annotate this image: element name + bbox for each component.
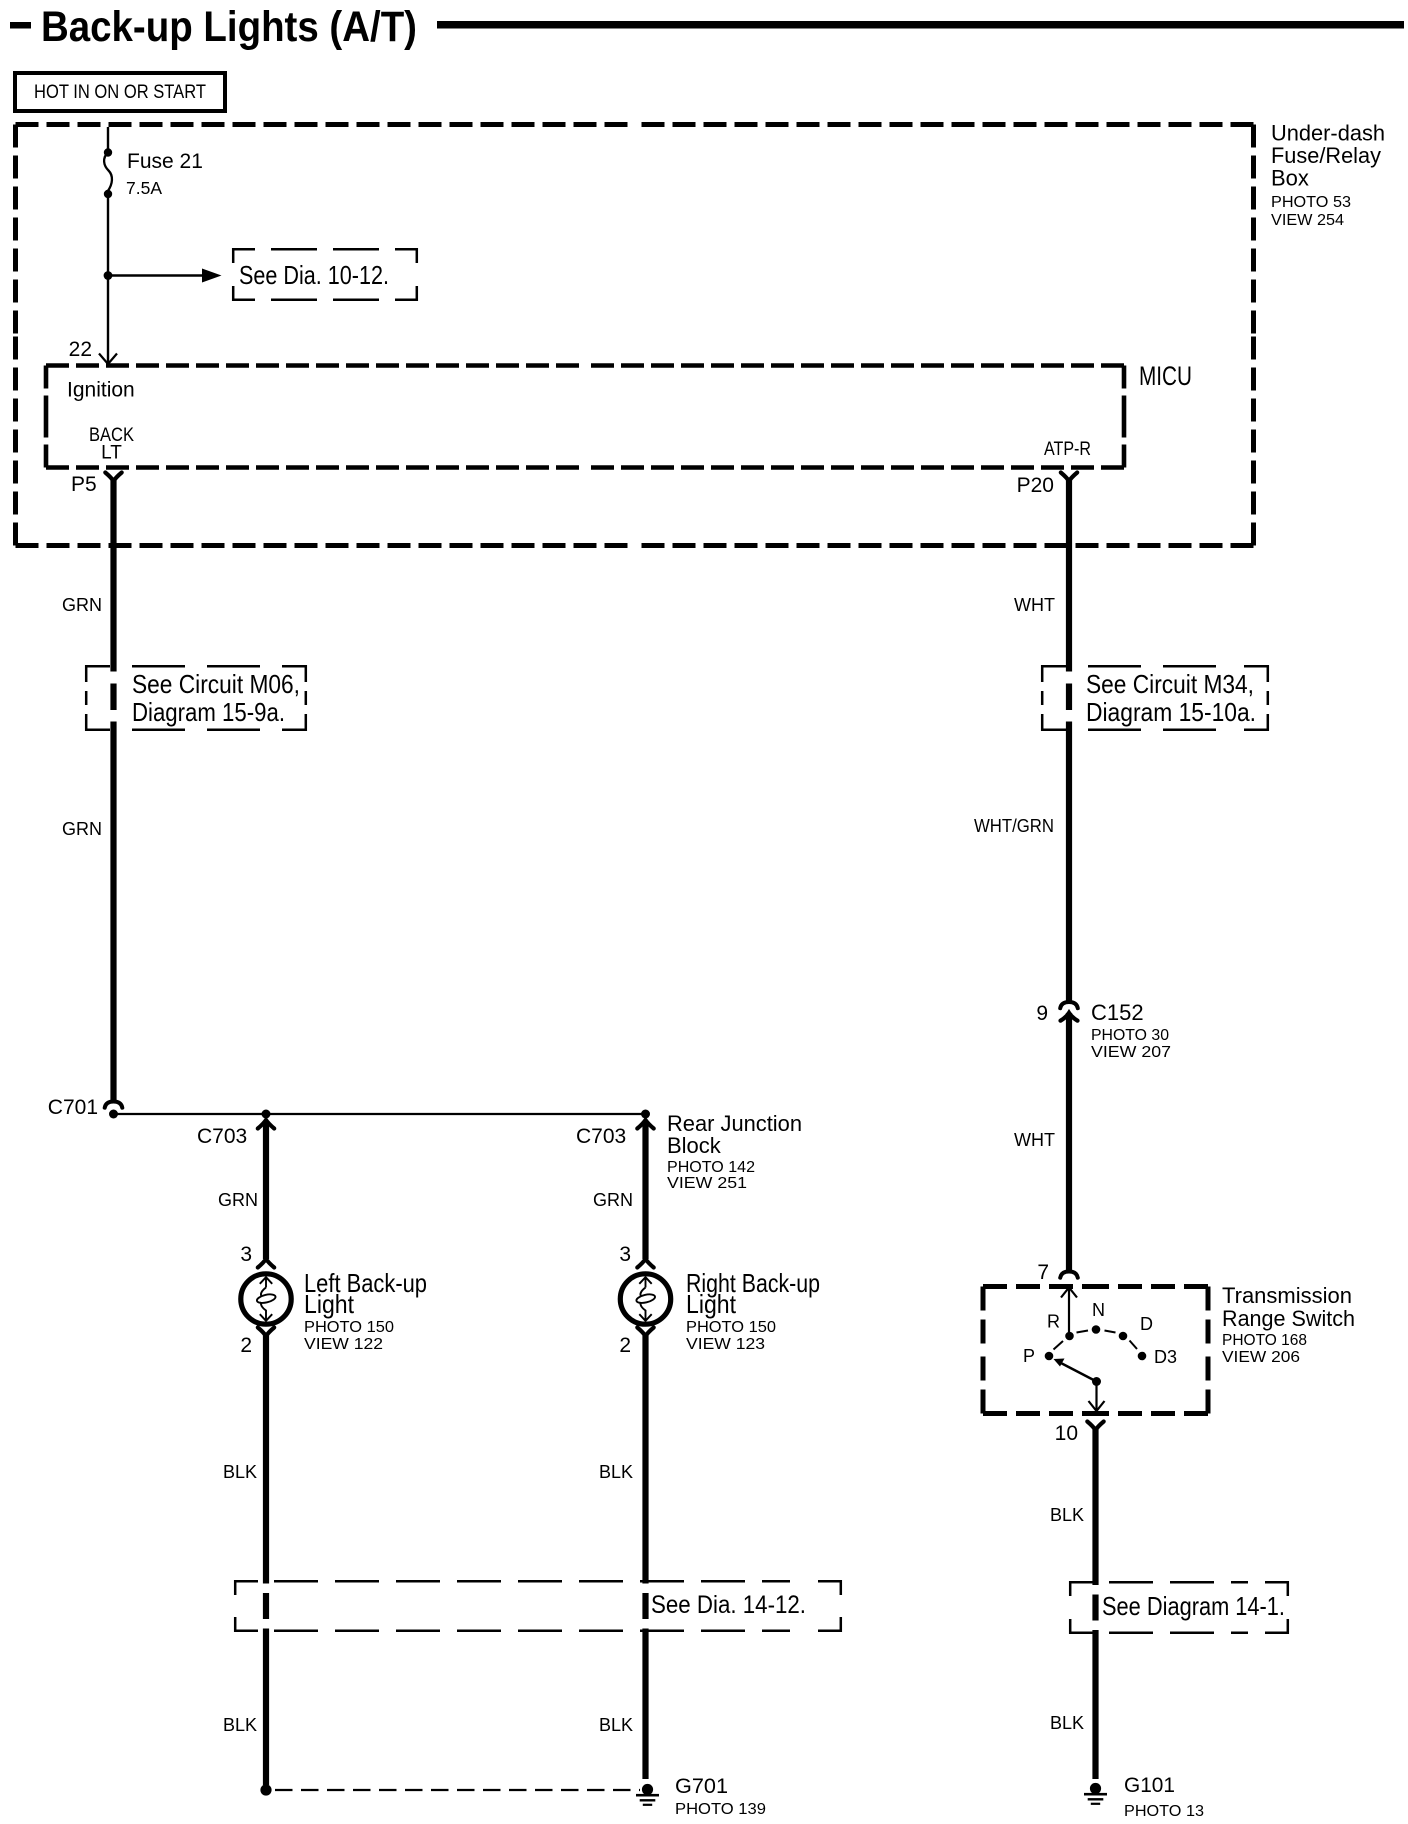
wire P20 to C152 (WHT) xyxy=(1066,479,1072,1002)
svg-text:Fuse/Relay: Fuse/Relay xyxy=(1271,143,1381,168)
see circuit M34 dashed box xyxy=(1042,666,1268,730)
contact D3 xyxy=(1138,1352,1147,1361)
wire P5 to C701 (GRN) xyxy=(110,479,116,1101)
ground G701 xyxy=(636,1784,659,1806)
MICU box (dashed) xyxy=(46,366,1124,468)
connector at right lamp pin 2 xyxy=(637,1328,653,1337)
svg-text:PHOTO 150: PHOTO 150 xyxy=(304,1319,394,1336)
svg-text:Diagram 15-10a.: Diagram 15-10a. xyxy=(1086,697,1256,727)
wire from fuse down to MICU pin 22 xyxy=(107,194,109,364)
wire left lamp to ground node (BLK) xyxy=(263,1334,269,1785)
svg-text:BLK: BLK xyxy=(599,1715,633,1735)
svg-text:VIEW 207: VIEW 207 xyxy=(1091,1044,1171,1061)
svg-text:BLK: BLK xyxy=(1050,1713,1084,1733)
svg-text:P: P xyxy=(1023,1346,1035,1366)
svg-text:Transmission: Transmission xyxy=(1222,1283,1352,1308)
arrowhead into MICU xyxy=(99,354,117,365)
svg-text:BLK: BLK xyxy=(223,1462,257,1482)
see dia. 14-12. dashed box xyxy=(235,1581,841,1631)
node right C703 xyxy=(641,1110,650,1119)
svg-text:PHOTO 150: PHOTO 150 xyxy=(686,1319,776,1336)
junction on fuse wire xyxy=(104,271,113,280)
svg-text:C701: C701 xyxy=(48,1096,98,1119)
left back-up light label xyxy=(304,1268,427,1353)
svg-text:VIEW 123: VIEW 123 xyxy=(686,1336,765,1353)
svg-text:G701: G701 xyxy=(675,1775,728,1798)
wire interruption marks in 14-12 box xyxy=(261,1584,272,1594)
svg-text:VIEW 254: VIEW 254 xyxy=(1271,212,1344,229)
svg-text:WHT/GRN: WHT/GRN xyxy=(974,816,1054,836)
contact arc segments xyxy=(1054,1331,1138,1350)
svg-text:10: 10 xyxy=(1055,1422,1078,1445)
svg-text:22: 22 xyxy=(69,338,92,361)
connector P20 xyxy=(1061,473,1077,482)
TRS internal lead R to pin 7 with arrow xyxy=(1068,1288,1070,1337)
svg-text:N: N xyxy=(1092,1300,1105,1320)
svg-text:Box: Box xyxy=(1271,166,1309,191)
svg-text:Diagram 15-9a.: Diagram 15-9a. xyxy=(132,697,285,727)
connector C703 left xyxy=(258,1120,274,1129)
wire interruption marks in M34 box xyxy=(1064,672,1075,684)
wire right lamp to G701 (BLK) xyxy=(642,1334,648,1779)
fuse F21 7.5A xyxy=(104,148,112,198)
TRS internal lead pivot to pin 10 with arrow xyxy=(1095,1382,1097,1412)
svg-text:Light: Light xyxy=(304,1289,355,1319)
svg-text:WHT: WHT xyxy=(1014,595,1055,615)
svg-text:PHOTO 168: PHOTO 168 xyxy=(1222,1332,1307,1349)
rear junction block label xyxy=(667,1111,802,1192)
svg-text:G101: G101 xyxy=(1124,1774,1175,1797)
svg-text:P20: P20 xyxy=(1017,474,1054,497)
under-dash fuse/relay box (dashed) xyxy=(16,125,1254,546)
connector P5 xyxy=(105,473,121,482)
contact D xyxy=(1119,1332,1128,1341)
title dash xyxy=(10,22,31,29)
node left C703 xyxy=(262,1110,271,1119)
under-dash fuse/relay box label xyxy=(1271,121,1385,230)
svg-text:D: D xyxy=(1140,1314,1153,1334)
see circuit M06 dashed box xyxy=(86,666,306,730)
svg-text:LT: LT xyxy=(101,443,122,464)
svg-text:HOT IN ON OR START: HOT IN ON OR START xyxy=(34,82,206,103)
contact R xyxy=(1065,1332,1074,1341)
ground G101 xyxy=(1084,1783,1107,1805)
TRS label xyxy=(1222,1283,1355,1366)
svg-text:GRN: GRN xyxy=(62,819,102,839)
dashed ground link wire xyxy=(275,1789,640,1791)
svg-text:PHOTO 13: PHOTO 13 xyxy=(1124,1803,1204,1820)
svg-text:Back-up Lights (A/T): Back-up Lights (A/T) xyxy=(41,3,417,51)
title rule xyxy=(437,21,1404,29)
horizontal wire C701 to branches xyxy=(114,1113,646,1115)
contact N xyxy=(1092,1325,1101,1334)
svg-text:9: 9 xyxy=(1036,1002,1048,1025)
svg-text:D3: D3 xyxy=(1154,1347,1177,1367)
svg-text:3: 3 xyxy=(240,1243,252,1266)
svg-text:See Diagram 14-1.: See Diagram 14-1. xyxy=(1102,1591,1285,1621)
connector C701 (wire end arc) xyxy=(105,1102,123,1108)
svg-text:Ignition: Ignition xyxy=(67,379,135,402)
svg-text:See Dia. 10-12.: See Dia. 10-12. xyxy=(239,260,389,290)
connector C703 right xyxy=(637,1120,653,1129)
svg-text:Range Switch: Range Switch xyxy=(1222,1306,1355,1331)
svg-text:2: 2 xyxy=(240,1334,252,1357)
see diagram 14-1. dashed box xyxy=(1070,1582,1288,1633)
svg-text:VIEW 122: VIEW 122 xyxy=(304,1336,383,1353)
svg-text:C703: C703 xyxy=(197,1125,247,1148)
wire C152 to TRS pin 7 (WHT) xyxy=(1066,1013,1072,1270)
branch arrow wire to See Dia. 10-12. xyxy=(108,274,206,277)
connector at right lamp pin 3 xyxy=(637,1259,653,1268)
svg-text:Light: Light xyxy=(686,1289,737,1319)
wire interruption marks in 14-1 box xyxy=(1090,1585,1101,1595)
svg-text:7.5A: 7.5A xyxy=(126,178,162,198)
connector C152 female half xyxy=(1060,1002,1078,1008)
svg-text:2: 2 xyxy=(619,1334,631,1357)
svg-text:PHOTO 53: PHOTO 53 xyxy=(1271,194,1351,211)
wire interruption marks in M06 box xyxy=(108,672,119,684)
svg-text:BLK: BLK xyxy=(223,1715,257,1735)
ground splice node xyxy=(260,1784,271,1795)
svg-text:7: 7 xyxy=(1037,1261,1049,1284)
wire C703 to left lamp (GRN) xyxy=(263,1123,269,1259)
junction node C701 xyxy=(109,1110,118,1119)
svg-text:C152: C152 xyxy=(1091,1000,1144,1025)
svg-text:GRN: GRN xyxy=(218,1190,258,1210)
connector at left lamp pin 3 xyxy=(258,1259,274,1268)
left back-up light bulb xyxy=(241,1274,291,1324)
svg-text:Fuse 21: Fuse 21 xyxy=(127,150,203,173)
wire from hot feed to fuse xyxy=(107,127,109,152)
svg-text:MICU: MICU xyxy=(1139,361,1192,391)
svg-text:See Circuit M34,: See Circuit M34, xyxy=(1086,669,1254,699)
G701 label xyxy=(675,1775,766,1818)
connector at TRS pin 7 xyxy=(1060,1272,1078,1278)
svg-text:C703: C703 xyxy=(576,1125,626,1148)
right back-up light label xyxy=(686,1268,820,1353)
svg-text:GRN: GRN xyxy=(593,1190,633,1210)
svg-text:WHT: WHT xyxy=(1014,1130,1055,1150)
wire C703 to right lamp (GRN) xyxy=(642,1123,648,1259)
svg-text:GRN: GRN xyxy=(62,595,102,615)
see dia. 10-12. dashed box xyxy=(233,249,417,300)
svg-text:ATP-R: ATP-R xyxy=(1044,439,1091,460)
connector at left lamp pin 2 xyxy=(258,1328,274,1337)
contact P xyxy=(1045,1352,1054,1361)
svg-text:VIEW 206: VIEW 206 xyxy=(1222,1349,1300,1366)
svg-text:BLK: BLK xyxy=(599,1462,633,1482)
svg-text:P5: P5 xyxy=(71,473,97,496)
transmission range switch box (dashed) xyxy=(983,1287,1208,1414)
connector C152 male half xyxy=(1061,1013,1078,1021)
wire TRS pin 10 to G101 (BLK) xyxy=(1092,1428,1098,1779)
svg-text:Under-dash: Under-dash xyxy=(1271,121,1385,146)
svg-text:See Dia. 14-12.: See Dia. 14-12. xyxy=(651,1591,806,1619)
switch wiper to P xyxy=(1059,1362,1097,1382)
C152 label xyxy=(1091,1000,1171,1061)
right back-up light bulb xyxy=(620,1274,670,1324)
svg-text:R: R xyxy=(1047,1312,1060,1332)
wiper pivot xyxy=(1092,1377,1101,1386)
svg-text:See Circuit M06,: See Circuit M06, xyxy=(132,669,300,699)
svg-text:BLK: BLK xyxy=(1050,1505,1084,1525)
svg-text:PHOTO 30: PHOTO 30 xyxy=(1091,1027,1169,1044)
connector at TRS pin 10 xyxy=(1087,1422,1103,1431)
hot-in box xyxy=(15,73,225,111)
svg-text:3: 3 xyxy=(619,1243,631,1266)
G101 label xyxy=(1124,1774,1204,1820)
svg-text:Block: Block xyxy=(667,1133,722,1158)
svg-text:PHOTO 139: PHOTO 139 xyxy=(675,1801,766,1818)
svg-text:PHOTO 142: PHOTO 142 xyxy=(667,1159,755,1176)
svg-text:VIEW 251: VIEW 251 xyxy=(667,1175,747,1192)
